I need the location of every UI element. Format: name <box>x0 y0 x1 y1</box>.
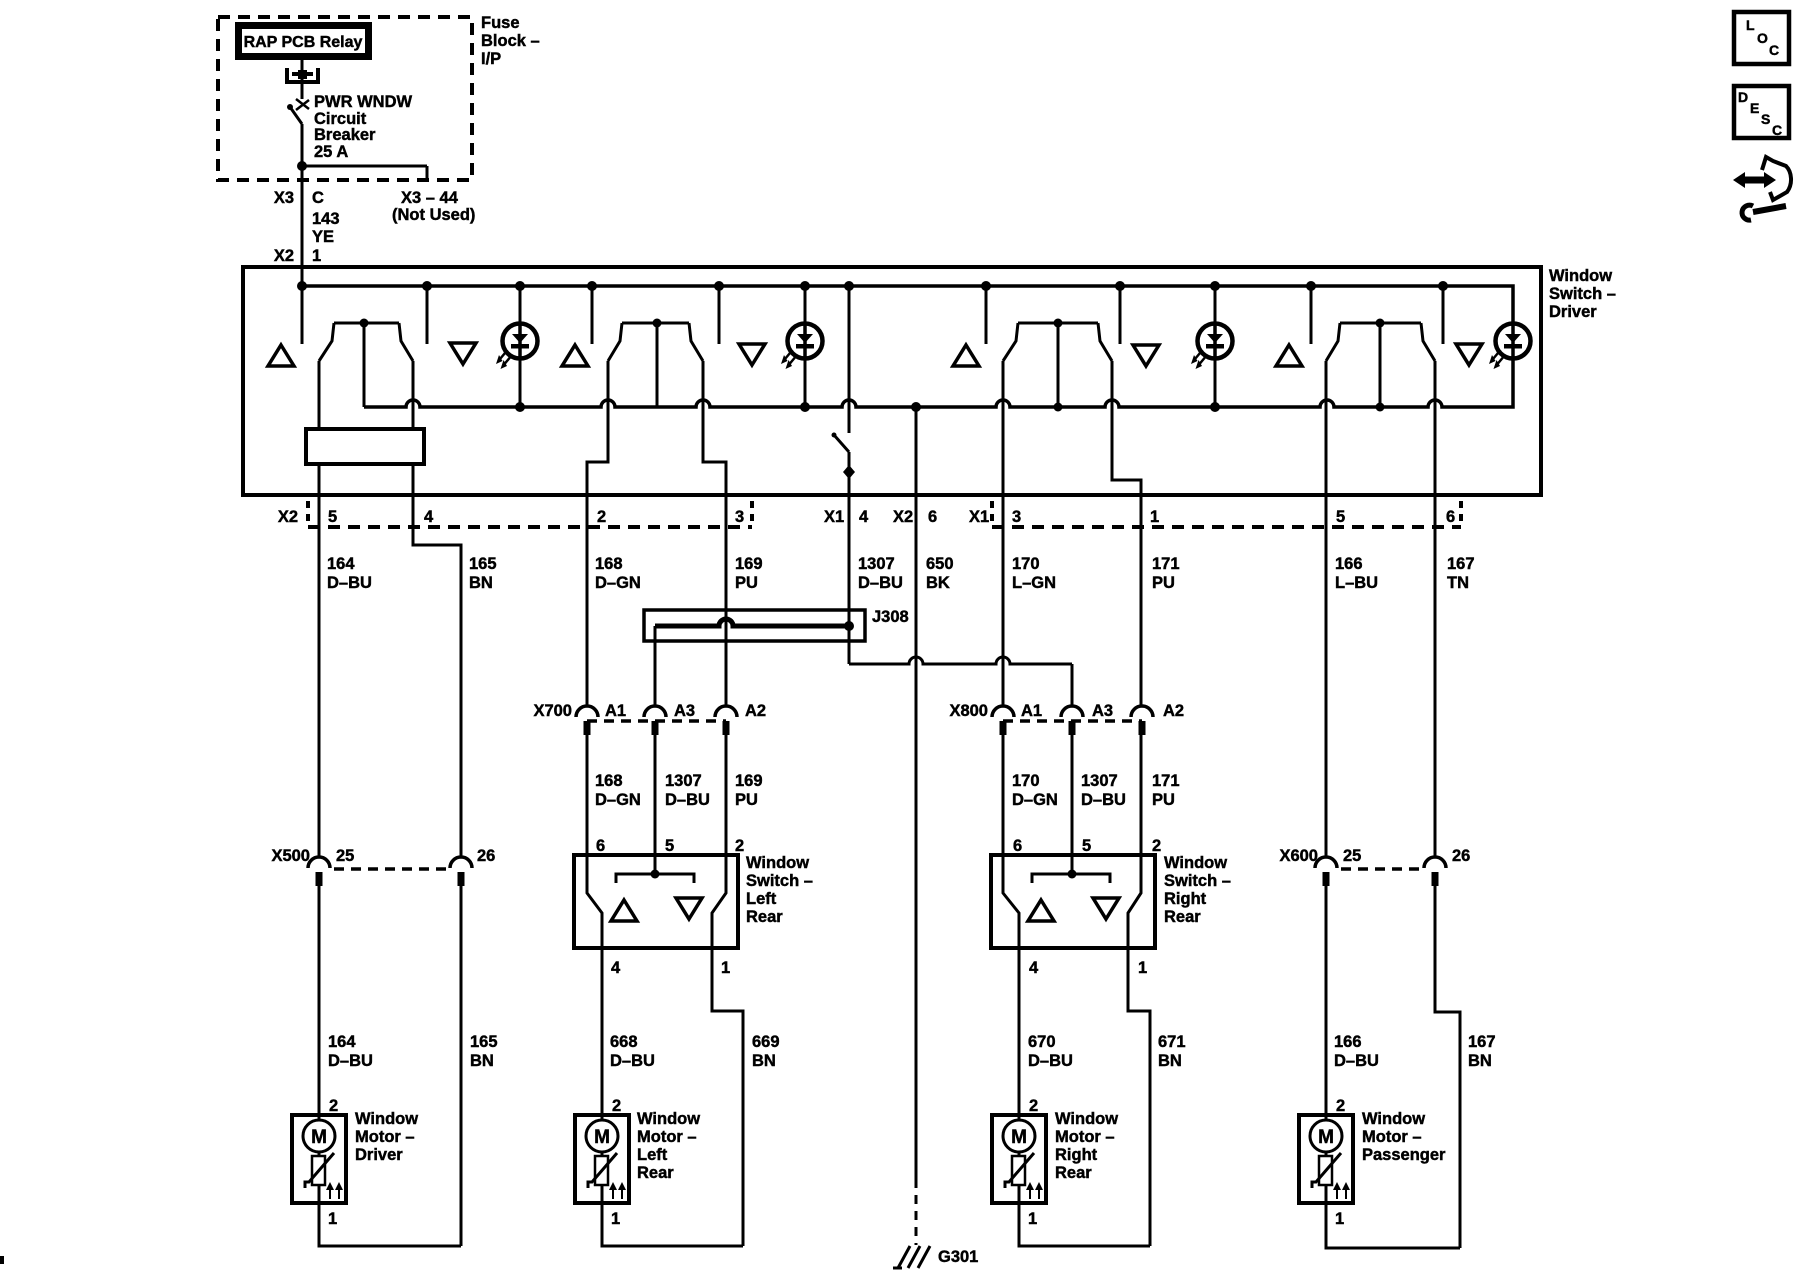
svg-text:D–BU: D–BU <box>328 1052 373 1070</box>
svg-text:2: 2 <box>612 1097 621 1115</box>
svg-text:1: 1 <box>721 959 730 977</box>
svg-text:PU: PU <box>1152 574 1175 592</box>
svg-text:PWR WNDW: PWR WNDW <box>314 93 412 111</box>
svg-text:BN: BN <box>470 1052 494 1070</box>
svg-text:Right: Right <box>1055 1146 1098 1164</box>
svg-text:5: 5 <box>1082 837 1091 855</box>
svg-text:2: 2 <box>735 837 744 855</box>
svg-text:PU: PU <box>735 791 758 809</box>
svg-text:1: 1 <box>1028 1210 1037 1228</box>
svg-text:Switch –: Switch – <box>1164 872 1231 890</box>
svg-text:X800: X800 <box>949 702 988 720</box>
svg-text:164: 164 <box>327 555 355 573</box>
svg-text:X2: X2 <box>274 247 294 265</box>
svg-text:2: 2 <box>1152 837 1161 855</box>
svg-text:D–GN: D–GN <box>595 574 641 592</box>
svg-text:1: 1 <box>328 1210 337 1228</box>
svg-text:25: 25 <box>1343 847 1361 865</box>
svg-text:4: 4 <box>611 959 621 977</box>
svg-text:X1: X1 <box>969 508 989 526</box>
svg-text:Rear: Rear <box>1055 1164 1092 1182</box>
svg-text:Motor –: Motor – <box>1362 1128 1422 1146</box>
svg-text:143: 143 <box>312 210 340 228</box>
svg-text:2: 2 <box>1029 1097 1038 1115</box>
svg-text:1: 1 <box>1138 959 1147 977</box>
svg-text:Motor –: Motor – <box>1055 1128 1115 1146</box>
svg-text:X600: X600 <box>1279 847 1318 865</box>
svg-text:Window: Window <box>746 854 809 872</box>
svg-text:L: L <box>1746 17 1755 33</box>
svg-text:D–BU: D–BU <box>1028 1052 1073 1070</box>
svg-text:D–BU: D–BU <box>858 574 903 592</box>
svg-text:X500: X500 <box>271 847 310 865</box>
svg-text:5: 5 <box>1336 508 1345 526</box>
svg-text:668: 668 <box>610 1033 638 1051</box>
svg-text:1: 1 <box>312 247 321 265</box>
svg-text:X1: X1 <box>824 508 844 526</box>
svg-text:671: 671 <box>1158 1033 1186 1051</box>
svg-text:167: 167 <box>1468 1033 1496 1051</box>
svg-text:1: 1 <box>611 1210 620 1228</box>
svg-text:4: 4 <box>859 508 869 526</box>
svg-text:166: 166 <box>1335 555 1363 573</box>
svg-text:6: 6 <box>1013 837 1022 855</box>
svg-text:2: 2 <box>597 508 606 526</box>
svg-text:Window: Window <box>1055 1110 1118 1128</box>
svg-text:1307: 1307 <box>1081 772 1118 790</box>
svg-text:3: 3 <box>1012 508 1021 526</box>
svg-text:A3: A3 <box>674 702 695 720</box>
svg-text:C: C <box>1772 122 1782 138</box>
svg-text:2: 2 <box>1336 1097 1345 1115</box>
svg-text:X3: X3 <box>274 189 294 207</box>
svg-text:Motor –: Motor – <box>355 1128 415 1146</box>
svg-text:6: 6 <box>1446 508 1455 526</box>
svg-text:A1: A1 <box>605 702 626 720</box>
svg-text:Driver: Driver <box>1549 303 1597 321</box>
svg-text:A3: A3 <box>1092 702 1113 720</box>
svg-text:5: 5 <box>328 508 337 526</box>
svg-text:6: 6 <box>596 837 605 855</box>
svg-text:S: S <box>1761 111 1770 127</box>
svg-text:PU: PU <box>735 574 758 592</box>
svg-text:RAP PCB Relay: RAP PCB Relay <box>244 34 363 51</box>
svg-text:L–BU: L–BU <box>1335 574 1378 592</box>
svg-text:X2: X2 <box>893 508 913 526</box>
svg-text:D–BU: D–BU <box>665 791 710 809</box>
svg-text:670: 670 <box>1028 1033 1056 1051</box>
svg-text:J308: J308 <box>872 608 909 626</box>
svg-text:167: 167 <box>1447 555 1475 573</box>
svg-text:Left: Left <box>746 890 777 908</box>
svg-text:BN: BN <box>1468 1052 1492 1070</box>
svg-text:165: 165 <box>470 1033 498 1051</box>
svg-text:Switch –: Switch – <box>746 872 813 890</box>
svg-text:168: 168 <box>595 772 623 790</box>
svg-text:169: 169 <box>735 772 763 790</box>
svg-text:Rear: Rear <box>1164 908 1201 926</box>
svg-text:BN: BN <box>752 1052 776 1070</box>
svg-text:BK: BK <box>926 574 950 592</box>
svg-text:Block –: Block – <box>481 32 540 50</box>
svg-text:164: 164 <box>328 1033 356 1051</box>
svg-text:Window: Window <box>1362 1110 1425 1128</box>
svg-text:Right: Right <box>1164 890 1207 908</box>
svg-text:L–GN: L–GN <box>1012 574 1056 592</box>
svg-text:25 A: 25 A <box>314 143 348 161</box>
svg-text:5: 5 <box>665 837 674 855</box>
svg-text:Window: Window <box>1164 854 1227 872</box>
svg-text:D–GN: D–GN <box>595 791 641 809</box>
svg-text:PU: PU <box>1152 791 1175 809</box>
svg-text:Window: Window <box>1549 267 1612 285</box>
svg-text:1307: 1307 <box>858 555 895 573</box>
svg-text:1: 1 <box>1150 508 1159 526</box>
svg-text:BN: BN <box>469 574 493 592</box>
svg-text:D–BU: D–BU <box>1334 1052 1379 1070</box>
svg-text:A1: A1 <box>1021 702 1042 720</box>
svg-text:A2: A2 <box>745 702 766 720</box>
svg-text:166: 166 <box>1334 1033 1362 1051</box>
svg-text:Rear: Rear <box>746 908 783 926</box>
svg-text:170: 170 <box>1012 555 1040 573</box>
svg-text:A2: A2 <box>1163 702 1184 720</box>
svg-text:6: 6 <box>928 508 937 526</box>
svg-text:G301: G301 <box>938 1248 978 1266</box>
svg-text:TN: TN <box>1447 574 1469 592</box>
svg-text:D–BU: D–BU <box>1081 791 1126 809</box>
svg-text:2: 2 <box>329 1097 338 1115</box>
svg-text:YE: YE <box>312 228 334 246</box>
svg-text:168: 168 <box>595 555 623 573</box>
svg-text:165: 165 <box>469 555 497 573</box>
svg-text:669: 669 <box>752 1033 780 1051</box>
svg-text:O: O <box>1757 30 1768 46</box>
svg-text:(Not Used): (Not Used) <box>392 206 475 224</box>
svg-text:4: 4 <box>1029 959 1039 977</box>
svg-text:Rear: Rear <box>637 1164 674 1182</box>
svg-text:I/P: I/P <box>481 50 501 68</box>
svg-text:1307: 1307 <box>665 772 702 790</box>
svg-text:169: 169 <box>735 555 763 573</box>
svg-text:25: 25 <box>336 847 354 865</box>
svg-text:X700: X700 <box>533 702 572 720</box>
svg-text:26: 26 <box>477 847 495 865</box>
svg-text:E: E <box>1750 100 1759 116</box>
svg-text:1: 1 <box>1335 1210 1344 1228</box>
svg-text:Left: Left <box>637 1146 668 1164</box>
svg-text:Fuse: Fuse <box>481 14 520 32</box>
svg-text:Breaker: Breaker <box>314 126 376 144</box>
svg-text:Window: Window <box>637 1110 700 1128</box>
svg-text:X3 – 44: X3 – 44 <box>401 189 459 207</box>
svg-text:D–BU: D–BU <box>610 1052 655 1070</box>
svg-text:Driver: Driver <box>355 1146 403 1164</box>
svg-text:171: 171 <box>1152 555 1180 573</box>
svg-text:4: 4 <box>424 508 434 526</box>
svg-text:3: 3 <box>735 508 744 526</box>
svg-text:D–BU: D–BU <box>327 574 372 592</box>
svg-text:Switch –: Switch – <box>1549 285 1616 303</box>
svg-text:Motor –: Motor – <box>637 1128 697 1146</box>
svg-text:C: C <box>312 189 324 207</box>
svg-text:170: 170 <box>1012 772 1040 790</box>
svg-text:C: C <box>1769 42 1779 58</box>
svg-text:BN: BN <box>1158 1052 1182 1070</box>
svg-text:26: 26 <box>1452 847 1470 865</box>
svg-text:Window: Window <box>355 1110 418 1128</box>
svg-text:171: 171 <box>1152 772 1180 790</box>
svg-text:650: 650 <box>926 555 954 573</box>
svg-text:D: D <box>1738 89 1748 105</box>
svg-text:D–GN: D–GN <box>1012 791 1058 809</box>
svg-text:Passenger: Passenger <box>1362 1146 1446 1164</box>
svg-text:X2: X2 <box>278 508 298 526</box>
